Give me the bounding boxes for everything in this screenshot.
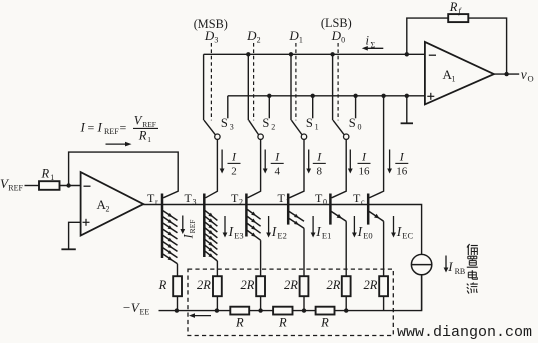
label (LSB) (321, 16, 352, 30)
arrow emitter current IE0 (352, 216, 357, 238)
svg-text:2R: 2R (364, 278, 378, 292)
svg-text:REF: REF (142, 120, 156, 129)
wire contact from ground bus bit 0 (355, 96, 357, 119)
svg-text:16: 16 (359, 166, 371, 178)
label (MSB) (194, 17, 228, 31)
resistor 2R (Tc emitter) (364, 276, 388, 296)
node junction Tc collector on ground bus (381, 94, 385, 98)
label current I/16 fraction Tc (395, 149, 408, 177)
wire switch arm S1 (291, 120, 302, 135)
wire collector of Tc to ground bus (369, 96, 383, 198)
label IE0 (357, 224, 373, 241)
wire contact from summing bus bit 2 (247, 54, 249, 120)
label IEC (396, 224, 414, 241)
svg-text:REF: REF (188, 220, 197, 234)
resistor R (Tr emitter) (158, 276, 182, 296)
label S2 (262, 116, 275, 132)
svg-text:r: r (155, 197, 158, 206)
label D0 digital input (331, 28, 346, 45)
switch pole S3 (215, 134, 220, 139)
svg-text:www.diangon.com: www.diangon.com (397, 324, 532, 341)
node junction S2 contact on ground bus (267, 94, 271, 98)
svg-text:T: T (231, 191, 239, 205)
label D3 digital input (204, 28, 219, 45)
arrow emitter current IE1 (311, 216, 316, 238)
node feedback junction on summing bus (405, 52, 409, 56)
svg-text:=: = (120, 121, 127, 135)
svg-text:RB: RB (455, 267, 466, 276)
wire A2 noninverting input to ground (69, 222, 81, 249)
boundary dashed box (internal ladder) (188, 269, 393, 335)
svg-text:R: R (278, 316, 287, 330)
wire contact from summing bus bit 3 (203, 54, 205, 120)
node junction S0 contact on ground bus (353, 94, 357, 98)
svg-text:0: 0 (358, 122, 362, 131)
arrow collector current I/4 bit 2 (263, 150, 268, 174)
svg-text:R: R (235, 316, 244, 330)
resistor R1 (39, 167, 60, 190)
label IE1 (315, 224, 331, 241)
wire contact from summing bus bit 0 (332, 54, 334, 120)
wire dashed control line D3 (210, 43, 212, 120)
label S0 (349, 116, 362, 132)
resistor 2R (T3 emitter) (197, 276, 222, 296)
wire contact from ground bus bit 3 (227, 96, 229, 119)
wire -VEE rail (159, 275, 422, 311)
wire switch arm S0 (333, 120, 344, 135)
svg-text:REF: REF (8, 184, 23, 193)
svg-text:2: 2 (257, 36, 261, 45)
svg-text:I: I (182, 234, 196, 240)
wire R to rail (177, 296, 179, 310)
svg-text:EC: EC (402, 231, 413, 241)
svg-text:T: T (353, 191, 361, 205)
svg-text:S: S (221, 116, 228, 130)
node junction ground on bus (405, 94, 409, 98)
svg-text:=: = (88, 121, 95, 135)
svg-text:16: 16 (396, 166, 408, 178)
svg-text:O: O (528, 73, 534, 83)
node ladder junction (3) (215, 308, 219, 312)
label T2 (231, 191, 243, 207)
arrow i-sigma (left) (362, 46, 384, 51)
wire collector of T1 to switch S1 (289, 139, 304, 197)
wire 2R to rail (c) (383, 296, 385, 310)
label current I/8 fraction (313, 149, 326, 177)
svg-text:S: S (349, 116, 356, 130)
node junction D0 contact on summing bus (330, 52, 334, 56)
label i-sigma current (366, 34, 376, 50)
current source bias (411, 254, 431, 274)
resistor 2R (T2 emitter) (241, 276, 265, 296)
wire emitter rail Tr (177, 264, 179, 276)
wire 2R to rail (0) (345, 296, 347, 310)
resistor R ladder horizontal 1 (230, 307, 249, 330)
label Tr (147, 191, 158, 207)
svg-text:v: v (521, 67, 527, 82)
arrow emitter current IE2 (266, 216, 271, 238)
label D1 digital input (288, 28, 303, 45)
node junction S1 contact on ground bus (311, 94, 315, 98)
wire emitter rail T1 (303, 228, 305, 276)
svg-text:EE: EE (140, 307, 150, 316)
node ladder junction (0) (344, 308, 348, 312)
wire R1 to A2 inverting input (60, 185, 81, 187)
arrow emitter current IEC (391, 216, 396, 238)
svg-text:D: D (246, 28, 257, 43)
switch pole S2 (258, 134, 263, 139)
node junction R on rail (175, 308, 179, 312)
svg-text:2: 2 (239, 197, 243, 206)
svg-text:D: D (288, 28, 299, 43)
label -VEE supply (122, 300, 149, 317)
wire emitter rail Tc (383, 221, 385, 276)
node ladder junction (1) (302, 308, 306, 312)
svg-text:8: 8 (317, 166, 323, 178)
svg-text:I: I (97, 120, 103, 135)
svg-text:T: T (315, 191, 323, 205)
transistor T3 (204, 194, 217, 262)
switch pole S1 (301, 134, 306, 139)
label IREF (rotated) (182, 220, 198, 240)
wire summing bus to A1 inverting input (204, 53, 425, 55)
arrow collector current I/16 Tc (387, 150, 392, 174)
label IE3 (228, 224, 244, 241)
wire A1 noninverting input to ground (406, 96, 408, 123)
svg-text:2R: 2R (241, 278, 255, 292)
svg-text:R: R (158, 278, 167, 292)
op-amp A2 (81, 172, 144, 236)
svg-text:i: i (366, 34, 370, 48)
svg-text:S: S (262, 116, 269, 130)
switch pole S0 (344, 134, 349, 139)
resistor 2R (T1 emitter) (284, 276, 308, 296)
label T1 (278, 191, 290, 207)
label current I/4 fraction (271, 149, 284, 177)
svg-text:I: I (447, 259, 453, 274)
label current I/2 fraction (228, 149, 241, 177)
wire 2R to rail (2) (260, 296, 262, 310)
svg-text:3: 3 (214, 36, 218, 45)
svg-text:R: R (41, 167, 50, 181)
svg-text:1: 1 (452, 75, 456, 84)
arrow collector current I/8 bit 1 (306, 150, 311, 174)
svg-text:2: 2 (106, 205, 110, 214)
wire switch arm S2 (249, 120, 259, 135)
wire dashed control line D1 (295, 43, 297, 120)
svg-text:1: 1 (147, 135, 151, 144)
arrow collector current I/16 bit 0 (348, 150, 353, 174)
svg-text:1: 1 (286, 197, 290, 206)
arrow collector current I/2 bit 3 (220, 150, 225, 174)
arrow emitter current IREF (180, 216, 185, 235)
svg-text:2R: 2R (327, 278, 341, 292)
wire contact from summing bus bit 1 (290, 54, 292, 120)
svg-text:3: 3 (193, 197, 197, 206)
svg-text:T: T (185, 191, 193, 205)
svg-text:3: 3 (230, 122, 234, 131)
label D2 digital input (246, 28, 261, 45)
label current I/16 fraction (358, 149, 371, 177)
svg-text:E0: E0 (363, 231, 372, 241)
svg-text:4: 4 (274, 166, 280, 178)
resistor 2R (T0 emitter) (327, 276, 351, 296)
arrow bias current IRB (444, 256, 449, 273)
wire dashed control line D0 (337, 43, 339, 120)
svg-text:1: 1 (50, 173, 54, 182)
wire contact from ground bus bit 1 (312, 96, 314, 119)
wire A2 feedback to Tr collector (69, 152, 179, 198)
svg-text:R: R (320, 316, 329, 330)
wire collector of T0 to switch S0 (332, 139, 347, 197)
svg-text:I: I (80, 120, 86, 135)
svg-text:1: 1 (299, 36, 303, 45)
wire collector of T3 to switch S3 (206, 139, 218, 197)
svg-text:c: c (361, 197, 365, 206)
label IE2 (271, 224, 287, 241)
wire switch arm S3 (204, 120, 216, 135)
transistor T0 (330, 194, 346, 225)
svg-text:2: 2 (271, 122, 275, 131)
label T3 (185, 191, 197, 207)
label T0 (315, 191, 327, 207)
svg-text:0: 0 (323, 197, 327, 206)
wire emitter rail T3 (216, 261, 218, 276)
label S1 (306, 116, 319, 132)
svg-text:R: R (138, 129, 147, 143)
ground A1 input (401, 122, 413, 124)
svg-text:E1: E1 (322, 231, 331, 241)
node ladder junction (2) (258, 308, 262, 312)
wire A1 output (494, 73, 519, 75)
svg-text:T: T (278, 191, 286, 205)
arrow emitter current IE3 (223, 216, 228, 238)
resistor R ladder horizontal 2 (273, 307, 292, 330)
svg-text:D: D (331, 28, 342, 43)
label vO output (521, 67, 534, 84)
svg-text:REF: REF (104, 127, 119, 136)
svg-text:R: R (449, 0, 458, 14)
svg-text:D: D (204, 28, 215, 43)
svg-text:−V: −V (122, 300, 141, 315)
wire emitter rail T0 (345, 221, 347, 276)
svg-text:E2: E2 (277, 231, 286, 241)
wire ground bus to A1 noninverting input (228, 95, 425, 97)
arrow ladder current (left) (189, 313, 211, 318)
resistor Rf (448, 0, 468, 22)
label bias current chinese 偏置电流 (467, 244, 478, 294)
wire feedback loop Rf (407, 18, 507, 74)
label S3 (221, 116, 234, 132)
formula I = IREF = VREF/R1 (80, 113, 159, 144)
node A2 inverting input junction (66, 183, 70, 187)
transistor T1 (288, 194, 304, 229)
wire contact from ground bus bit 2 (268, 96, 270, 119)
svg-text:0: 0 (341, 36, 345, 45)
wire collector of T2 to switch S2 (248, 139, 261, 197)
node VREF input terminal label (0, 176, 24, 193)
svg-text:S: S (306, 116, 313, 130)
svg-text:E3: E3 (234, 231, 243, 241)
label Tc (353, 191, 365, 207)
transistor Tr (162, 194, 178, 264)
wire VREF to R1 (25, 185, 40, 187)
label IRB (447, 259, 465, 276)
svg-text:1: 1 (315, 122, 319, 131)
svg-text:2R: 2R (197, 278, 211, 292)
wire 2R to rail (3) (216, 296, 218, 310)
transistor T2 (246, 194, 260, 241)
svg-text:T: T (147, 191, 155, 205)
node junction D2 contact on summing bus (246, 52, 250, 56)
watermark www.diangon.com (397, 324, 532, 341)
ground A2 (61, 248, 75, 250)
node A1 output junction (504, 72, 508, 76)
wire current source to rail (421, 275, 423, 311)
svg-text:2: 2 (231, 166, 237, 178)
resistor R ladder horizontal 3 (316, 307, 335, 330)
svg-text:2R: 2R (284, 278, 298, 292)
transistor Tc (368, 194, 383, 225)
wire 2R to rail (1) (303, 296, 305, 310)
wire emitter rail T2 (260, 240, 262, 276)
wire dashed control line D2 (253, 43, 255, 120)
arrow current direction I (right) (106, 142, 132, 147)
wire base bus A2 output to bias source (143, 205, 421, 255)
op-amp A1 (425, 42, 494, 105)
node junction D1 contact on summing bus (289, 52, 293, 56)
